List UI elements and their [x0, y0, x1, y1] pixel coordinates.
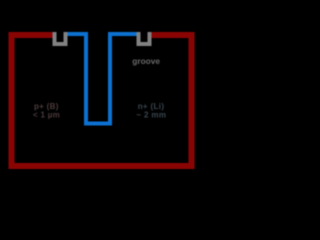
- svg-text:n+ (Li): n+ (Li): [138, 102, 165, 111]
- n+ contact (blue groove lining): [68, 32, 137, 125]
- groove contact right (gray notch): [137, 32, 152, 46]
- label: groove: [132, 56, 160, 66]
- svg-text:~ 2 mm: ~ 2 mm: [136, 111, 166, 120]
- label: n+ (Li) ~ 2 mm: [136, 102, 166, 120]
- svg-text:p+ (B): p+ (B): [34, 102, 59, 111]
- svg-text:groove: groove: [132, 56, 160, 66]
- svg-text:< 1 µm: < 1 µm: [33, 111, 60, 120]
- groove contact left (gray notch): [53, 32, 68, 46]
- p+ contact outline (dark red detector border): [9, 32, 195, 169]
- label: p+ (B) < 1 µm: [33, 102, 60, 120]
